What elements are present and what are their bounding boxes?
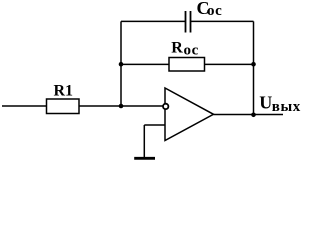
svg-text:R1: R1 [54, 83, 74, 100]
svg-text:ос: ос [184, 42, 199, 58]
svg-text:вых: вых [272, 99, 301, 115]
svg-text:U: U [259, 92, 272, 112]
svg-text:ос: ос [207, 3, 222, 19]
svg-text:R: R [171, 40, 183, 57]
